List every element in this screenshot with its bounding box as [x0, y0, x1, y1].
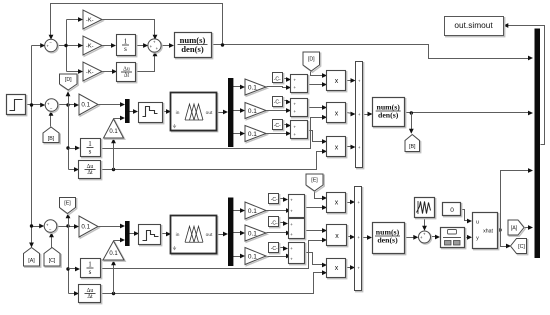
- svg-text:out.simout: out.simout: [454, 20, 493, 30]
- svg-text:xhat: xhat: [483, 228, 493, 234]
- svg-text:+: +: [357, 265, 360, 270]
- svg-text:x: x: [335, 200, 339, 207]
- svg-text:+: +: [357, 200, 360, 205]
- svg-text:0.1: 0.1: [109, 129, 118, 135]
- svg-text:x: x: [335, 233, 339, 240]
- svg-text:0.1: 0.1: [81, 224, 90, 231]
- svg-text:y: y: [476, 236, 479, 242]
- svg-text:0.1: 0.1: [248, 84, 257, 91]
- svg-text:den(s): den(s): [377, 236, 398, 245]
- svg-text:Δt: Δt: [87, 170, 93, 176]
- svg-text:[E]: [E]: [311, 178, 318, 184]
- svg-text:[D]: [D]: [65, 77, 72, 83]
- svg-text:+: +: [290, 209, 293, 214]
- svg-text:[A]: [A]: [28, 258, 35, 264]
- svg-text:-K-: -K-: [86, 44, 94, 50]
- svg-text:Δu: Δu: [123, 66, 130, 72]
- svg-text:0.1: 0.1: [109, 251, 118, 257]
- svg-text:u: u: [476, 219, 479, 225]
- svg-text:s: s: [89, 147, 92, 155]
- svg-text:+: +: [290, 232, 293, 237]
- svg-text:0.1: 0.1: [248, 131, 257, 138]
- svg-text:out: out: [206, 232, 213, 238]
- svg-text:0.1: 0.1: [248, 208, 257, 215]
- svg-text:0.1: 0.1: [248, 253, 257, 260]
- svg-text:0.1: 0.1: [248, 108, 257, 115]
- svg-text:Δt: Δt: [124, 73, 130, 79]
- svg-text:-C-: -C-: [271, 246, 278, 252]
- svg-text:[A]: [A]: [511, 226, 518, 232]
- svg-text:out: out: [206, 110, 213, 116]
- svg-text:+: +: [357, 235, 360, 240]
- svg-text:Δu: Δu: [87, 288, 94, 294]
- svg-text:-C-: -C-: [274, 99, 281, 105]
- svg-text:-K-: -K-: [86, 70, 94, 76]
- svg-text:[E]: [E]: [64, 201, 71, 207]
- svg-text:-C-: -C-: [274, 123, 281, 129]
- svg-text:+: +: [293, 132, 296, 137]
- svg-text:den(s): den(s): [181, 44, 204, 54]
- svg-text:0: 0: [450, 207, 454, 214]
- svg-text:0.1: 0.1: [81, 102, 90, 109]
- svg-text:+: +: [290, 222, 293, 227]
- svg-text:in: in: [176, 110, 180, 116]
- svg-text:+: +: [293, 101, 296, 106]
- svg-text:Δt: Δt: [87, 294, 93, 300]
- svg-text:-C-: -C-: [271, 197, 278, 203]
- svg-text:s: s: [89, 268, 92, 276]
- svg-text:+: +: [293, 109, 296, 114]
- svg-text:den(s): den(s): [378, 111, 399, 120]
- svg-text:s: s: [124, 45, 127, 53]
- svg-text:+: +: [358, 112, 361, 117]
- svg-text:Δu: Δu: [87, 164, 94, 170]
- svg-text:x: x: [335, 110, 339, 117]
- svg-text:x: x: [335, 265, 339, 272]
- svg-text:[C]: [C]: [49, 258, 56, 264]
- svg-text:+: +: [290, 257, 293, 262]
- svg-text:+: +: [290, 246, 293, 251]
- svg-text:0.1: 0.1: [248, 230, 257, 237]
- svg-text:[B]: [B]: [409, 144, 416, 150]
- svg-text:x: x: [335, 78, 339, 85]
- svg-text:in: in: [176, 232, 180, 238]
- svg-text:-C-: -C-: [274, 76, 281, 82]
- svg-text:x: x: [335, 144, 339, 151]
- svg-text:+: +: [358, 145, 361, 150]
- svg-text:-C-: -C-: [271, 220, 278, 226]
- svg-text:+: +: [358, 78, 361, 83]
- svg-text:+: +: [293, 77, 296, 82]
- svg-text:+: +: [293, 124, 296, 129]
- svg-text:[B]: [B]: [48, 136, 55, 142]
- svg-text:+: +: [290, 198, 293, 203]
- svg-text:+: +: [293, 85, 296, 90]
- svg-text:[D]: [D]: [308, 57, 315, 63]
- svg-text:[C]: [C]: [518, 244, 525, 250]
- svg-text:-K-: -K-: [86, 18, 94, 24]
